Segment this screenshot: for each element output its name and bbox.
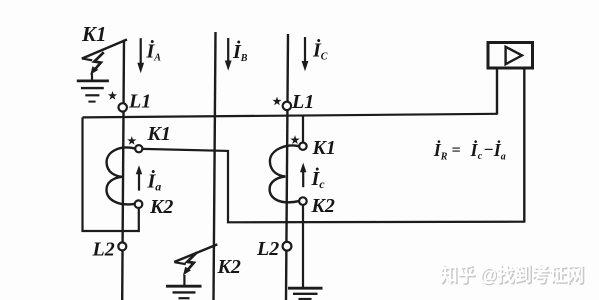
svg-text:K2: K2 bbox=[217, 256, 241, 278]
svg-text:İa: İa bbox=[147, 169, 162, 194]
svg-text:İB: İB bbox=[232, 39, 248, 64]
svg-text:知乎 @找到考证网: 知乎 @找到考证网 bbox=[440, 263, 584, 286]
svg-text:K2: K2 bbox=[311, 195, 335, 217]
svg-text:İA: İA bbox=[146, 39, 162, 64]
svg-text:İC: İC bbox=[312, 38, 328, 63]
svg-text:L2: L2 bbox=[92, 239, 115, 261]
svg-text:K1: K1 bbox=[81, 22, 107, 46]
svg-text:L1: L1 bbox=[291, 91, 314, 113]
svg-text:K1: K1 bbox=[312, 137, 336, 159]
svg-text:İc: İc bbox=[311, 166, 326, 191]
svg-text:K1: K1 bbox=[147, 123, 171, 145]
svg-text:İR=İc−İa: İR=İc−İa bbox=[433, 139, 506, 163]
svg-text:L1: L1 bbox=[128, 91, 151, 113]
svg-text:K2: K2 bbox=[149, 196, 173, 218]
svg-text:L2: L2 bbox=[256, 238, 279, 260]
